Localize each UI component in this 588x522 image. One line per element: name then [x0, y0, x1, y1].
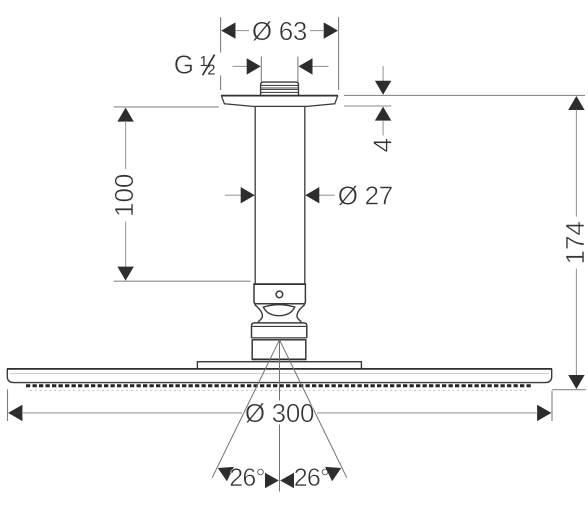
ball joint waist (left contour) [254, 304, 262, 322]
dimension 4: bottom extension line [344, 105, 391, 107]
spray angle left: arrow on 26 deg line [218, 467, 234, 481]
svg-text:Ø 300: Ø 300 [245, 398, 314, 428]
dimension 174: value label (rotated) [560, 221, 588, 264]
spray angle left: arrow to center line [265, 473, 279, 489]
dimension Ø300: right arrow [317, 405, 551, 421]
dimension 4: upper arrow (down) [375, 66, 391, 95]
svg-text:Ø 27: Ø 27 [338, 180, 393, 210]
svg-text:26°: 26° [229, 464, 264, 492]
connector upper block [252, 323, 307, 338]
dimension G 1/2: left extension line [260, 57, 262, 85]
ceiling flange (escutcheon) [221, 96, 338, 107]
dimension 100: top extension line [114, 106, 219, 108]
dimension Ø63: right arrow [310, 22, 338, 38]
svg-text:2: 2 [207, 63, 215, 79]
dimension Ø63: left arrow [221, 22, 249, 38]
spray angle left: value label [229, 464, 264, 492]
dimension Ø27: right arrow [305, 187, 334, 203]
ball (lens shape) [263, 305, 295, 316]
svg-text:100: 100 [109, 174, 139, 217]
ball joint waist (right contour) [297, 304, 305, 322]
mounting plate on shower disc [197, 362, 361, 369]
dimension 174: bottom extension line [552, 389, 586, 391]
dimension 4: value label (rotated) [367, 138, 397, 152]
spray cone: right 26 degree line [280, 340, 347, 478]
shower head disc body [7, 369, 552, 383]
dimension Ø63: value label [252, 16, 307, 46]
pipe (ceiling connector Ø27) [255, 107, 305, 284]
svg-text:Ø 63: Ø 63 [252, 16, 307, 46]
spray angle right: arrow to center line [280, 473, 294, 489]
thread nipple G1/2 [261, 82, 299, 95]
dimension 100: value label (rotated) [109, 174, 139, 217]
svg-text:174: 174 [560, 221, 588, 264]
spray cone: center line [279, 340, 281, 492]
shower disc chamfer line [10, 373, 549, 375]
spray angle right: value label [294, 464, 329, 492]
svg-text:G: G [174, 50, 194, 80]
svg-text:4: 4 [367, 138, 397, 152]
dimension 4: top extension line (flange top, long, shared with 174) [344, 94, 585, 96]
dimension 100: bottom extension line [114, 280, 251, 282]
dimension 100: dimension line with arrows [117, 108, 133, 281]
dimension 4: lower arrow (up) [375, 107, 391, 136]
spray angle right: arrow on 26 deg line [325, 467, 341, 481]
ball joint collar [254, 284, 306, 304]
svg-text:26°: 26° [294, 464, 329, 492]
dimension G 1/2: label [174, 50, 216, 80]
dimension Ø63: right extension line [338, 17, 340, 90]
dimension G 1/2: right extension line [297, 57, 299, 85]
dimension G 1/2: left arrow [232, 58, 260, 74]
dimension 174: dimension line with arrows [568, 96, 584, 389]
nozzle tips dotted line [30, 390, 529, 392]
shower disc spray face nozzle band (dashes) [26, 384, 533, 387]
dimension Ø27: value label [338, 180, 393, 210]
dimension Ø300: left arrow [8, 405, 242, 421]
collar set-screw hole [276, 291, 283, 298]
spray cone: left 26 degree line [212, 340, 279, 478]
connector lower block [252, 340, 307, 360]
dimension Ø27: left arrow [225, 187, 255, 203]
dimension Ø300: right extension line [551, 391, 553, 421]
dimension Ø300: value label [245, 398, 314, 428]
dimension Ø300: left extension line [7, 389, 9, 421]
dimension Ø63: left extension line [220, 17, 222, 90]
dimension G 1/2: right arrow [299, 58, 329, 74]
